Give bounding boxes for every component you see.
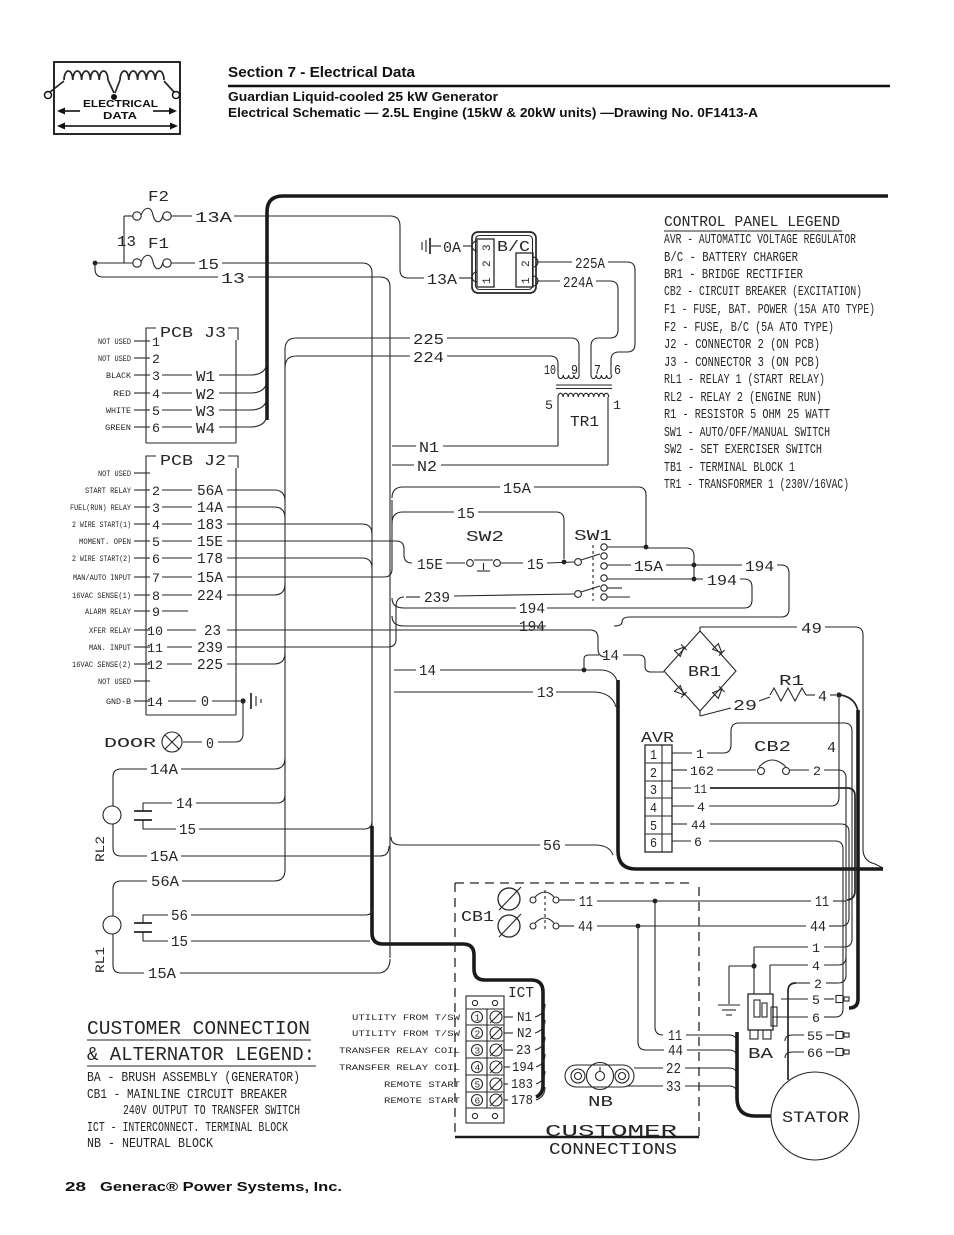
bus stub to stator bbox=[737, 1032, 771, 1116]
svg-text:UTILITY FROM T/SW: UTILITY FROM T/SW bbox=[352, 1013, 461, 1023]
J3 pin 2 not used bbox=[98, 352, 160, 367]
svg-text:2 WIRE START(1): 2 WIRE START(1) bbox=[72, 520, 131, 530]
svg-text:6: 6 bbox=[475, 1096, 481, 1107]
svg-text:240V OUTPUT TO TRANSFER SWITCH: 240V OUTPUT TO TRANSFER SWITCH bbox=[123, 1104, 300, 1119]
AVR pin 4 wire bbox=[672, 800, 705, 815]
svg-text:56: 56 bbox=[543, 838, 561, 855]
svg-text:TRANSFER RELAY COIL: TRANSFER RELAY COIL bbox=[339, 1063, 460, 1073]
svg-text:11: 11 bbox=[694, 782, 707, 797]
svg-text:R1 - RESISTOR 5 OHM 25 WATT: R1 - RESISTOR 5 OHM 25 WATT bbox=[664, 408, 830, 423]
connector PCB J2 bbox=[146, 453, 238, 715]
wire 11 from CB1 bbox=[559, 894, 846, 911]
wire 33 bbox=[626, 1079, 737, 1096]
svg-text:J3 - CONNECTOR 3 (ON PCB): J3 - CONNECTOR 3 (ON PCB) bbox=[664, 356, 820, 371]
svg-text:14A: 14A bbox=[197, 500, 223, 517]
fuse F2 bbox=[133, 189, 171, 222]
svg-text:15A: 15A bbox=[634, 559, 663, 576]
svg-text:14: 14 bbox=[147, 695, 163, 710]
wire N2 bbox=[392, 459, 608, 476]
ICT terminal 6 wire 178 bbox=[384, 1087, 545, 1109]
svg-text:56: 56 bbox=[171, 908, 188, 925]
junction dot 14 bbox=[582, 668, 587, 673]
svg-text:16VAC SENSE(2): 16VAC SENSE(2) bbox=[72, 660, 131, 670]
footer bbox=[65, 1179, 342, 1194]
svg-text:1: 1 bbox=[696, 747, 704, 762]
svg-text:2: 2 bbox=[521, 260, 533, 267]
svg-text:29: 29 bbox=[733, 698, 757, 715]
svg-text:BLACK: BLACK bbox=[106, 371, 132, 381]
svg-text:178: 178 bbox=[197, 551, 223, 568]
svg-text:13: 13 bbox=[117, 234, 136, 251]
wire 239 bbox=[406, 590, 574, 607]
svg-text:CONNECTIONS: CONNECTIONS bbox=[549, 1141, 677, 1160]
wire F2-F1 link, node 13 bbox=[117, 216, 136, 263]
svg-text:225: 225 bbox=[197, 657, 223, 674]
svg-text:194: 194 bbox=[512, 1061, 534, 1076]
svg-text:F1: F1 bbox=[148, 236, 169, 253]
wire 66 with plug bbox=[785, 1046, 849, 1061]
svg-text:44: 44 bbox=[578, 919, 593, 936]
wire 29 bbox=[700, 697, 770, 716]
svg-text:13A: 13A bbox=[195, 210, 232, 227]
wire 194 row 2 bbox=[547, 573, 752, 608]
wire 6 bottom row bbox=[772, 1011, 835, 1026]
svg-text:& ALTERNATOR LEGEND:: & ALTERNATOR LEGEND: bbox=[87, 1044, 315, 1066]
regulator AVR bbox=[641, 730, 674, 852]
svg-text:DATA: DATA bbox=[103, 110, 138, 122]
svg-text:BA - BRUSH ASSEMBLY (GENERATO: BA - BRUSH ASSEMBLY (GENERATOR) bbox=[87, 1071, 300, 1086]
wire 14 jog to BR1 bbox=[394, 648, 664, 681]
svg-text:224: 224 bbox=[197, 588, 223, 605]
header titles bbox=[228, 64, 890, 120]
J2 pin 6 wire 178 bbox=[72, 551, 372, 568]
svg-text:13: 13 bbox=[537, 685, 554, 702]
svg-text:15: 15 bbox=[171, 934, 188, 951]
svg-text:CUSTOMER: CUSTOMER bbox=[545, 1123, 677, 1142]
svg-text:CB2 - CIRCUIT BREAKER (EXCITAT: CB2 - CIRCUIT BREAKER (EXCITATION) bbox=[664, 285, 862, 300]
J2 pin 2 wire 56A bbox=[85, 483, 285, 501]
svg-text:W3: W3 bbox=[196, 404, 215, 421]
AVR pin 3 wire 11 bbox=[672, 782, 855, 900]
svg-text:7: 7 bbox=[152, 571, 160, 586]
wire 56 to AVR region bbox=[391, 837, 613, 855]
wire 13 to customer box bbox=[394, 685, 616, 707]
J3 pin 4 wire W2 bbox=[113, 379, 267, 404]
J2 pin 1 not used bbox=[98, 469, 150, 479]
wire SW1 to rail 694 bbox=[607, 547, 694, 579]
wire 4 vertical to AVR pin 4 bbox=[709, 698, 839, 806]
svg-text:MAN. INPUT: MAN. INPUT bbox=[89, 643, 131, 653]
svg-text:5: 5 bbox=[152, 535, 160, 550]
wire 44 from CB1 bbox=[559, 919, 841, 936]
svg-text:F1 - FUSE, BAT. POWER (15A AT: F1 - FUSE, BAT. POWER (15A ATO TYPE) bbox=[664, 303, 875, 318]
customer connections dashed box bbox=[455, 883, 699, 1160]
svg-text:2: 2 bbox=[152, 352, 160, 367]
svg-text:CONTROL PANEL LEGEND: CONTROL PANEL LEGEND bbox=[664, 214, 840, 231]
brush assembly BA bbox=[748, 994, 777, 1063]
svg-text:3: 3 bbox=[475, 1046, 481, 1057]
svg-text:0: 0 bbox=[201, 694, 209, 711]
svg-text:14: 14 bbox=[419, 663, 436, 680]
svg-text:225: 225 bbox=[413, 332, 444, 349]
svg-text:MOMENT. OPEN: MOMENT. OPEN bbox=[79, 537, 131, 547]
svg-text:6: 6 bbox=[694, 835, 702, 850]
thick lead R1 to bus bbox=[841, 695, 858, 712]
junction dot 44 bbox=[636, 924, 641, 929]
bus bundle top-left corner bbox=[267, 196, 888, 420]
svg-text:6: 6 bbox=[812, 1011, 820, 1026]
svg-text:15E: 15E bbox=[417, 557, 443, 574]
svg-text:194: 194 bbox=[745, 559, 774, 576]
svg-text:2: 2 bbox=[814, 977, 822, 992]
battery charger B/C bbox=[472, 232, 538, 293]
svg-text:15: 15 bbox=[198, 257, 219, 274]
svg-text:22: 22 bbox=[666, 1061, 681, 1078]
svg-text:194: 194 bbox=[519, 601, 545, 618]
J2 pin 14 wire 0 gnd-b bbox=[106, 694, 240, 711]
chassis ground gnd-b bbox=[251, 693, 261, 709]
svg-text:WHITE: WHITE bbox=[106, 406, 131, 416]
svg-text:REMOTE START: REMOTE START bbox=[384, 1080, 460, 1090]
junction dot SW1 top bbox=[644, 545, 649, 550]
svg-text:ALARM RELAY: ALARM RELAY bbox=[85, 607, 131, 617]
neutral block NB bbox=[565, 1063, 634, 1112]
svg-text:3: 3 bbox=[650, 784, 657, 799]
wire 225A from B/C to TR1 pin 6 bbox=[537, 256, 635, 375]
wire 15 from F1 to rail bbox=[171, 257, 372, 274]
svg-text:10: 10 bbox=[147, 624, 163, 639]
svg-text:4: 4 bbox=[818, 689, 827, 706]
wire 49 bbox=[700, 621, 883, 868]
svg-text:44: 44 bbox=[691, 818, 706, 833]
junction dot 15/SW2 bbox=[562, 560, 567, 565]
wire 55 with plug bbox=[785, 1029, 849, 1044]
svg-text:4: 4 bbox=[827, 740, 836, 757]
transformer TR1 bbox=[544, 364, 621, 465]
wire 44 down to customer bbox=[638, 928, 737, 1060]
wire 224A from B/C to TR1 pin 7 bbox=[537, 275, 618, 375]
wire N1 bbox=[392, 440, 558, 457]
svg-text:4: 4 bbox=[697, 800, 705, 815]
wire 194 long line 1 bbox=[392, 598, 545, 618]
svg-text:15E: 15E bbox=[197, 534, 223, 551]
svg-text:3: 3 bbox=[152, 369, 160, 384]
wire 194 long line 2 bbox=[392, 616, 546, 636]
svg-text:6: 6 bbox=[152, 552, 160, 567]
J2 pin 5 wire 15E bbox=[79, 534, 412, 563]
wire 1 bottom row bbox=[754, 941, 844, 994]
terminal block ICT bbox=[466, 985, 534, 1123]
svg-text:N2: N2 bbox=[517, 1027, 532, 1042]
bus bundle to customer connections bbox=[372, 826, 543, 1097]
svg-text:11: 11 bbox=[579, 894, 593, 911]
svg-text:PCB J2: PCB J2 bbox=[160, 453, 226, 470]
svg-text:4: 4 bbox=[475, 1063, 481, 1074]
svg-text:2: 2 bbox=[482, 260, 494, 267]
fuse F1 bbox=[97, 236, 171, 269]
svg-text:B/C - BATTERY CHARGER: B/C - BATTERY CHARGER bbox=[664, 251, 798, 266]
svg-text:TRANSFER RELAY COIL: TRANSFER RELAY COIL bbox=[339, 1046, 460, 1056]
SW1 stubs bbox=[607, 587, 622, 589]
junction dot 11 bbox=[653, 899, 658, 904]
svg-text:4: 4 bbox=[152, 518, 160, 533]
wire 224 to TR1 pin 10 bbox=[285, 350, 558, 375]
svg-text:4: 4 bbox=[152, 387, 160, 402]
bus right vertical bbox=[849, 710, 858, 1008]
svg-text:239: 239 bbox=[197, 640, 223, 657]
svg-text:PCB J3: PCB J3 bbox=[160, 325, 226, 342]
svg-text:AVR - AUTOMATIC VOLTAGE REGULA: AVR - AUTOMATIC VOLTAGE REGULATOR bbox=[664, 233, 856, 248]
svg-text:N1: N1 bbox=[517, 1011, 532, 1026]
svg-text:N2: N2 bbox=[417, 459, 437, 476]
svg-text:NOT USED: NOT USED bbox=[98, 677, 131, 687]
svg-text:15: 15 bbox=[457, 506, 475, 523]
svg-text:3: 3 bbox=[152, 501, 160, 516]
wire 15A/194 row bbox=[607, 559, 789, 626]
svg-text:1: 1 bbox=[521, 277, 533, 284]
junction dot F1 bbox=[93, 261, 98, 266]
AVR pin 5 wire 44 bbox=[672, 818, 849, 926]
svg-text:6: 6 bbox=[614, 364, 621, 379]
svg-text:BR1: BR1 bbox=[688, 664, 721, 681]
AVR pin 2 wire 162 / breaker CB2 bbox=[672, 739, 846, 983]
svg-text:44: 44 bbox=[810, 919, 826, 936]
svg-text:CB1: CB1 bbox=[461, 909, 494, 926]
svg-text:5: 5 bbox=[545, 398, 553, 413]
svg-text:STATOR: STATOR bbox=[782, 1109, 849, 1127]
ICT terminal 5 wire 183 bbox=[384, 1071, 545, 1093]
svg-text:13: 13 bbox=[221, 271, 245, 288]
svg-text:15A: 15A bbox=[503, 481, 531, 498]
svg-text:14A: 14A bbox=[150, 762, 178, 779]
svg-text:TR1: TR1 bbox=[570, 414, 599, 431]
svg-text:XFER RELAY: XFER RELAY bbox=[89, 626, 131, 636]
svg-text:0A: 0A bbox=[443, 240, 461, 257]
J2 pin 3 wire 14A bbox=[70, 500, 285, 518]
wire 4 bottom row bbox=[770, 957, 846, 994]
svg-text:33: 33 bbox=[666, 1079, 681, 1096]
J2 pin 8 wire 224 bbox=[72, 584, 285, 605]
J2 pin 7 wire 15A bbox=[73, 500, 392, 587]
svg-text:11: 11 bbox=[147, 641, 163, 656]
svg-text:F2 - FUSE, B/C (5A ATO TYPE): F2 - FUSE, B/C (5A ATO TYPE) bbox=[664, 321, 834, 336]
wire 22 bbox=[634, 1061, 737, 1078]
svg-text:REMOTE START: REMOTE START bbox=[384, 1096, 460, 1106]
rail 15 vertical bbox=[371, 273, 373, 932]
svg-text:RL2 - RELAY 2 (ENGINE RUN): RL2 - RELAY 2 (ENGINE RUN) bbox=[664, 391, 822, 406]
svg-text:14: 14 bbox=[602, 648, 619, 665]
ICT terminal 1 N1 bbox=[352, 1004, 545, 1026]
svg-text:0: 0 bbox=[206, 736, 214, 753]
breaker CB1 bbox=[461, 887, 559, 937]
svg-text:1: 1 bbox=[650, 749, 657, 764]
junction dot gnd bbox=[240, 698, 245, 703]
stator bbox=[771, 1072, 859, 1160]
relay RL2 bbox=[93, 758, 389, 866]
earth ground BA bbox=[718, 966, 752, 1015]
svg-text:SW2: SW2 bbox=[466, 529, 504, 546]
J2 pin 10 wire 23 bbox=[89, 623, 606, 657]
svg-text:5: 5 bbox=[812, 993, 820, 1008]
svg-text:5: 5 bbox=[475, 1080, 481, 1091]
svg-text:4: 4 bbox=[650, 802, 657, 817]
J2 pin 13 not used bbox=[98, 677, 150, 687]
svg-text:BA: BA bbox=[748, 1046, 773, 1063]
ICT terminal 3 wire 23 bbox=[339, 1037, 545, 1059]
wire 15 to SW1 bbox=[392, 506, 564, 559]
svg-text:1: 1 bbox=[482, 277, 494, 284]
svg-text:START RELAY: START RELAY bbox=[85, 486, 131, 496]
svg-text:CB1 - MAINLINE CIRCUIT BREAKER: CB1 - MAINLINE CIRCUIT BREAKER bbox=[87, 1088, 287, 1103]
switch SW1 bbox=[574, 528, 612, 601]
svg-text:GND-B: GND-B bbox=[106, 697, 131, 707]
svg-text:NOT USED: NOT USED bbox=[98, 354, 131, 364]
svg-text:9: 9 bbox=[152, 605, 160, 620]
svg-text:SW2 - SET EXERCISER SWITCH: SW2 - SET EXERCISER SWITCH bbox=[664, 443, 822, 458]
svg-text:225A: 225A bbox=[575, 256, 605, 273]
svg-text:49: 49 bbox=[801, 621, 822, 638]
svg-text:NB: NB bbox=[588, 1094, 613, 1111]
svg-text:28: 28 bbox=[65, 1179, 86, 1194]
svg-text:6: 6 bbox=[650, 837, 657, 852]
svg-text:3: 3 bbox=[482, 244, 494, 251]
svg-text:BR1 - BRIDGE RECTIFIER: BR1 - BRIDGE RECTIFIER bbox=[664, 268, 803, 283]
junction dot 194 bbox=[692, 577, 697, 582]
svg-text:224A: 224A bbox=[563, 275, 593, 292]
svg-text:8: 8 bbox=[152, 589, 160, 604]
svg-text:15: 15 bbox=[527, 557, 544, 574]
logo: electrical data transformer emblem bbox=[45, 62, 181, 134]
svg-text:Guardian Liquid-cooled 25 kW G: Guardian Liquid-cooled 25 kW Generator bbox=[228, 89, 498, 104]
svg-text:13A: 13A bbox=[427, 272, 457, 289]
svg-text:NOT USED: NOT USED bbox=[98, 469, 131, 479]
chassis ground 0A bbox=[422, 238, 472, 257]
svg-text:14: 14 bbox=[176, 796, 193, 813]
svg-text:TR1 - TRANSFORMER 1 (230V/16VA: TR1 - TRANSFORMER 1 (230V/16VAC) bbox=[664, 478, 849, 493]
svg-text:RL1 - RELAY 1 (START RELAY): RL1 - RELAY 1 (START RELAY) bbox=[664, 373, 825, 388]
svg-text:5: 5 bbox=[650, 820, 657, 835]
svg-text:4: 4 bbox=[812, 959, 820, 974]
svg-text:ICT: ICT bbox=[508, 985, 534, 1002]
svg-text:RED: RED bbox=[113, 389, 131, 399]
svg-text:194: 194 bbox=[707, 573, 737, 590]
svg-text:10: 10 bbox=[544, 364, 556, 379]
junction dot R1/4 bbox=[836, 692, 841, 697]
svg-text:5: 5 bbox=[152, 404, 160, 419]
svg-text:DOOR: DOOR bbox=[104, 736, 157, 752]
wire 2 to stator bbox=[788, 983, 796, 1080]
AVR pin 1 wire bbox=[672, 723, 852, 947]
svg-text:44: 44 bbox=[668, 1043, 683, 1060]
J3 pin 3 wire W1 bbox=[106, 361, 267, 386]
svg-text:1: 1 bbox=[152, 335, 160, 350]
svg-text:56A: 56A bbox=[197, 483, 223, 500]
svg-text:J2 - CONNECTOR 2 (ON PCB): J2 - CONNECTOR 2 (ON PCB) bbox=[664, 338, 820, 353]
svg-text:N1: N1 bbox=[419, 440, 439, 457]
svg-text:NB - NEUTRAL BLOCK: NB - NEUTRAL BLOCK bbox=[87, 1137, 214, 1152]
svg-text:CUSTOMER CONNECTION: CUSTOMER CONNECTION bbox=[87, 1018, 310, 1040]
lamp DOOR bbox=[104, 703, 243, 753]
bridge rectifier BR1 bbox=[664, 631, 736, 711]
svg-text:7: 7 bbox=[594, 364, 601, 379]
svg-text:W2: W2 bbox=[196, 387, 215, 404]
svg-text:SW1 - AUTO/OFF/MANUAL SWITCH: SW1 - AUTO/OFF/MANUAL SWITCH bbox=[664, 426, 830, 441]
rail 56A/14A vertical bbox=[284, 348, 286, 871]
svg-text:2: 2 bbox=[650, 767, 657, 782]
J2 pin 12 wire 225 bbox=[72, 653, 285, 674]
svg-text:23: 23 bbox=[516, 1044, 531, 1059]
ICT terminal 4 wire 194 bbox=[339, 1054, 545, 1076]
customer connection legend bbox=[87, 1018, 316, 1152]
svg-text:R1: R1 bbox=[779, 673, 804, 690]
svg-text:1: 1 bbox=[475, 1013, 481, 1024]
resistor R1 bbox=[770, 673, 836, 706]
junction dot BA bbox=[751, 963, 756, 968]
svg-text:12: 12 bbox=[147, 658, 163, 673]
svg-text:2: 2 bbox=[475, 1029, 481, 1040]
svg-text:183: 183 bbox=[511, 1078, 533, 1093]
wire 5 with plug bbox=[781, 993, 849, 1008]
svg-text:56A: 56A bbox=[151, 874, 179, 891]
AVR pin 6 wire bbox=[672, 835, 843, 1017]
svg-text:RL1: RL1 bbox=[93, 947, 108, 973]
junction dot 15A/194 bbox=[692, 563, 697, 568]
svg-text:W4: W4 bbox=[196, 421, 215, 438]
svg-text:NOT USED: NOT USED bbox=[98, 337, 131, 347]
svg-text:239: 239 bbox=[424, 590, 450, 607]
svg-text:F2: F2 bbox=[148, 189, 169, 206]
svg-text:224: 224 bbox=[413, 350, 444, 367]
svg-text:Generac® Power Systems, Inc.: Generac® Power Systems, Inc. bbox=[100, 1179, 342, 1194]
J2 pin 11 wire 239 bbox=[89, 597, 404, 657]
svg-text:FUEL(RUN) RELAY: FUEL(RUN) RELAY bbox=[70, 503, 131, 513]
rail 13 vertical bbox=[389, 287, 391, 958]
wire 11 down to customer bbox=[655, 903, 737, 1045]
svg-text:2 WIRE START(2): 2 WIRE START(2) bbox=[72, 554, 131, 564]
svg-text:15: 15 bbox=[179, 822, 196, 839]
switch SW2 bbox=[417, 529, 574, 574]
svg-text:194: 194 bbox=[519, 619, 545, 636]
J3 pin 5 wire W3 bbox=[106, 396, 267, 421]
J2 pin 4 wire 183 bbox=[72, 517, 372, 534]
J2 pin 9 alarm relay bbox=[85, 605, 188, 620]
svg-text:183: 183 bbox=[197, 517, 223, 534]
svg-text:CB2: CB2 bbox=[754, 739, 791, 756]
svg-text:Section 7 - Electrical Data: Section 7 - Electrical Data bbox=[228, 64, 416, 81]
svg-text:ICT - INTERCONNECT. TERMINAL B: ICT - INTERCONNECT. TERMINAL BLOCK bbox=[87, 1121, 289, 1136]
svg-text:15A: 15A bbox=[197, 570, 223, 587]
svg-text:MAN/AUTO INPUT: MAN/AUTO INPUT bbox=[73, 573, 131, 583]
wire 13A from F2 to B/C bbox=[171, 210, 472, 289]
svg-text:2: 2 bbox=[813, 764, 821, 779]
connector PCB J3 bbox=[146, 325, 238, 443]
svg-text:15A: 15A bbox=[150, 849, 178, 866]
svg-text:W1: W1 bbox=[196, 369, 215, 386]
wire 225 to TR1 pin 9 bbox=[285, 332, 579, 375]
svg-text:178: 178 bbox=[511, 1094, 533, 1109]
bus horizontal 869 bbox=[618, 680, 883, 869]
svg-text:66: 66 bbox=[807, 1046, 823, 1061]
J3 pin 1 not used bbox=[98, 335, 160, 350]
svg-text:Electrical Schematic — 2.5L En: Electrical Schematic — 2.5L Engine (15kW… bbox=[228, 105, 759, 120]
svg-text:15A: 15A bbox=[148, 966, 176, 983]
wire 2 bottom row bbox=[796, 977, 838, 992]
svg-text:16VAC SENSE(1): 16VAC SENSE(1) bbox=[72, 591, 131, 601]
svg-text:23: 23 bbox=[204, 623, 221, 640]
wire 15A to SW1 bbox=[392, 481, 646, 545]
svg-text:2: 2 bbox=[152, 484, 160, 499]
relay RL1 bbox=[93, 870, 390, 983]
